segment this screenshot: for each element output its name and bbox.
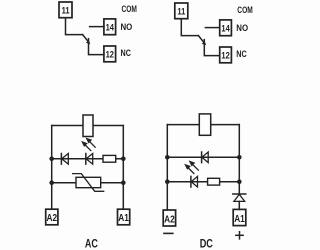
wire from terminal 11 (common) [66,18,83,35]
junction dot DC row2 left [165,179,170,184]
svg-text:11: 11 [62,4,70,15]
right rail AC [122,126,124,210]
svg-text:COM: COM [237,5,253,15]
movable contact arm with arrow [83,35,91,45]
svg-text:14: 14 [221,22,230,33]
terminal box 14 [104,19,116,35]
terminal box 12 (right) [220,47,232,63]
LED L1 (AC) [86,154,93,165]
terminal box A2 (DC) [163,210,175,226]
svg-text:14: 14 [106,21,115,32]
row 1 wire DC (freewheel diode branch) [167,156,239,158]
relay coil K1 (AC) [83,115,93,137]
svg-text:NC: NC [121,48,132,58]
top wire DC [167,124,239,126]
movable contact arm with arrow (right) [198,36,206,46]
diode D1 (AC) [61,154,68,165]
left rail DC [166,125,168,210]
svg-text:A1: A1 [234,214,245,225]
LED L2 (DC) [191,176,198,187]
svg-text:NO: NO [236,23,248,33]
svg-text:AC: AC [85,237,98,250]
svg-text:12: 12 [106,48,114,59]
svg-text:12: 12 [221,49,229,60]
LED L2 emission arrows [184,160,198,173]
resistor R1 (AC) [103,155,116,162]
junction dot DC row1 right [237,155,242,160]
resistor R2 (DC) [208,178,220,185]
right rail DC lower (below D3) [238,201,240,209]
terminal box 12 [104,46,116,62]
svg-text:NO: NO [121,22,133,32]
wire to terminal 12 (NC) [89,39,104,55]
plus polarity mark under A1 [236,232,243,239]
junction dot DC row2 right [237,179,242,184]
relay contact set 2 (top-right SPDT diagram) [175,3,253,63]
minus polarity mark under A2 [164,232,173,234]
junction dot AC row2 left [49,180,54,185]
svg-text:A2: A2 [47,213,58,224]
terminal box A2 (AC) [46,209,58,225]
junction dot AC row1 right [121,157,126,162]
svg-text:NC: NC [236,49,247,59]
svg-text:COM: COM [122,4,138,14]
top wire AC [52,125,124,127]
left rail AC [51,126,53,210]
svg-text:A1: A1 [118,213,129,224]
polarity protection diode D3 (on A1 rail, pointing up) [233,194,246,201]
svg-text:DC: DC [200,236,213,250]
terminal box A1 (DC) [233,209,246,225]
relay coil K2 (DC) [199,114,210,135]
junction dot AC row2 right [121,180,126,185]
terminal box 14 (right) [220,20,232,36]
terminal box 11 [59,2,72,18]
svg-text:A2: A2 [164,214,175,225]
diode D2 (DC) [202,152,209,163]
junction dot AC row1 left [49,157,54,162]
varistor RV1 diagonal stroke [73,174,104,192]
junction dot DC row1 left [165,155,170,160]
right rail DC upper [238,125,240,194]
LED L1 emission arrows [81,138,95,151]
wire to terminal 12 (right NC) [204,40,219,56]
lead of terminal 14 (NO) [90,26,104,28]
row 1 wire AC (diode branch) [52,158,124,160]
lead of terminal 14 (right NO) [205,27,219,29]
row 2 wire AC (varistor branch) [52,182,124,184]
terminal box A1 (AC) [118,209,130,225]
wire from terminal 11 (right common) [181,19,198,36]
row 2 wire DC (LED branch) [167,181,239,183]
varistor RV1 body [76,177,101,187]
svg-text:11: 11 [177,5,185,16]
terminal box 11 (right) [175,3,188,19]
